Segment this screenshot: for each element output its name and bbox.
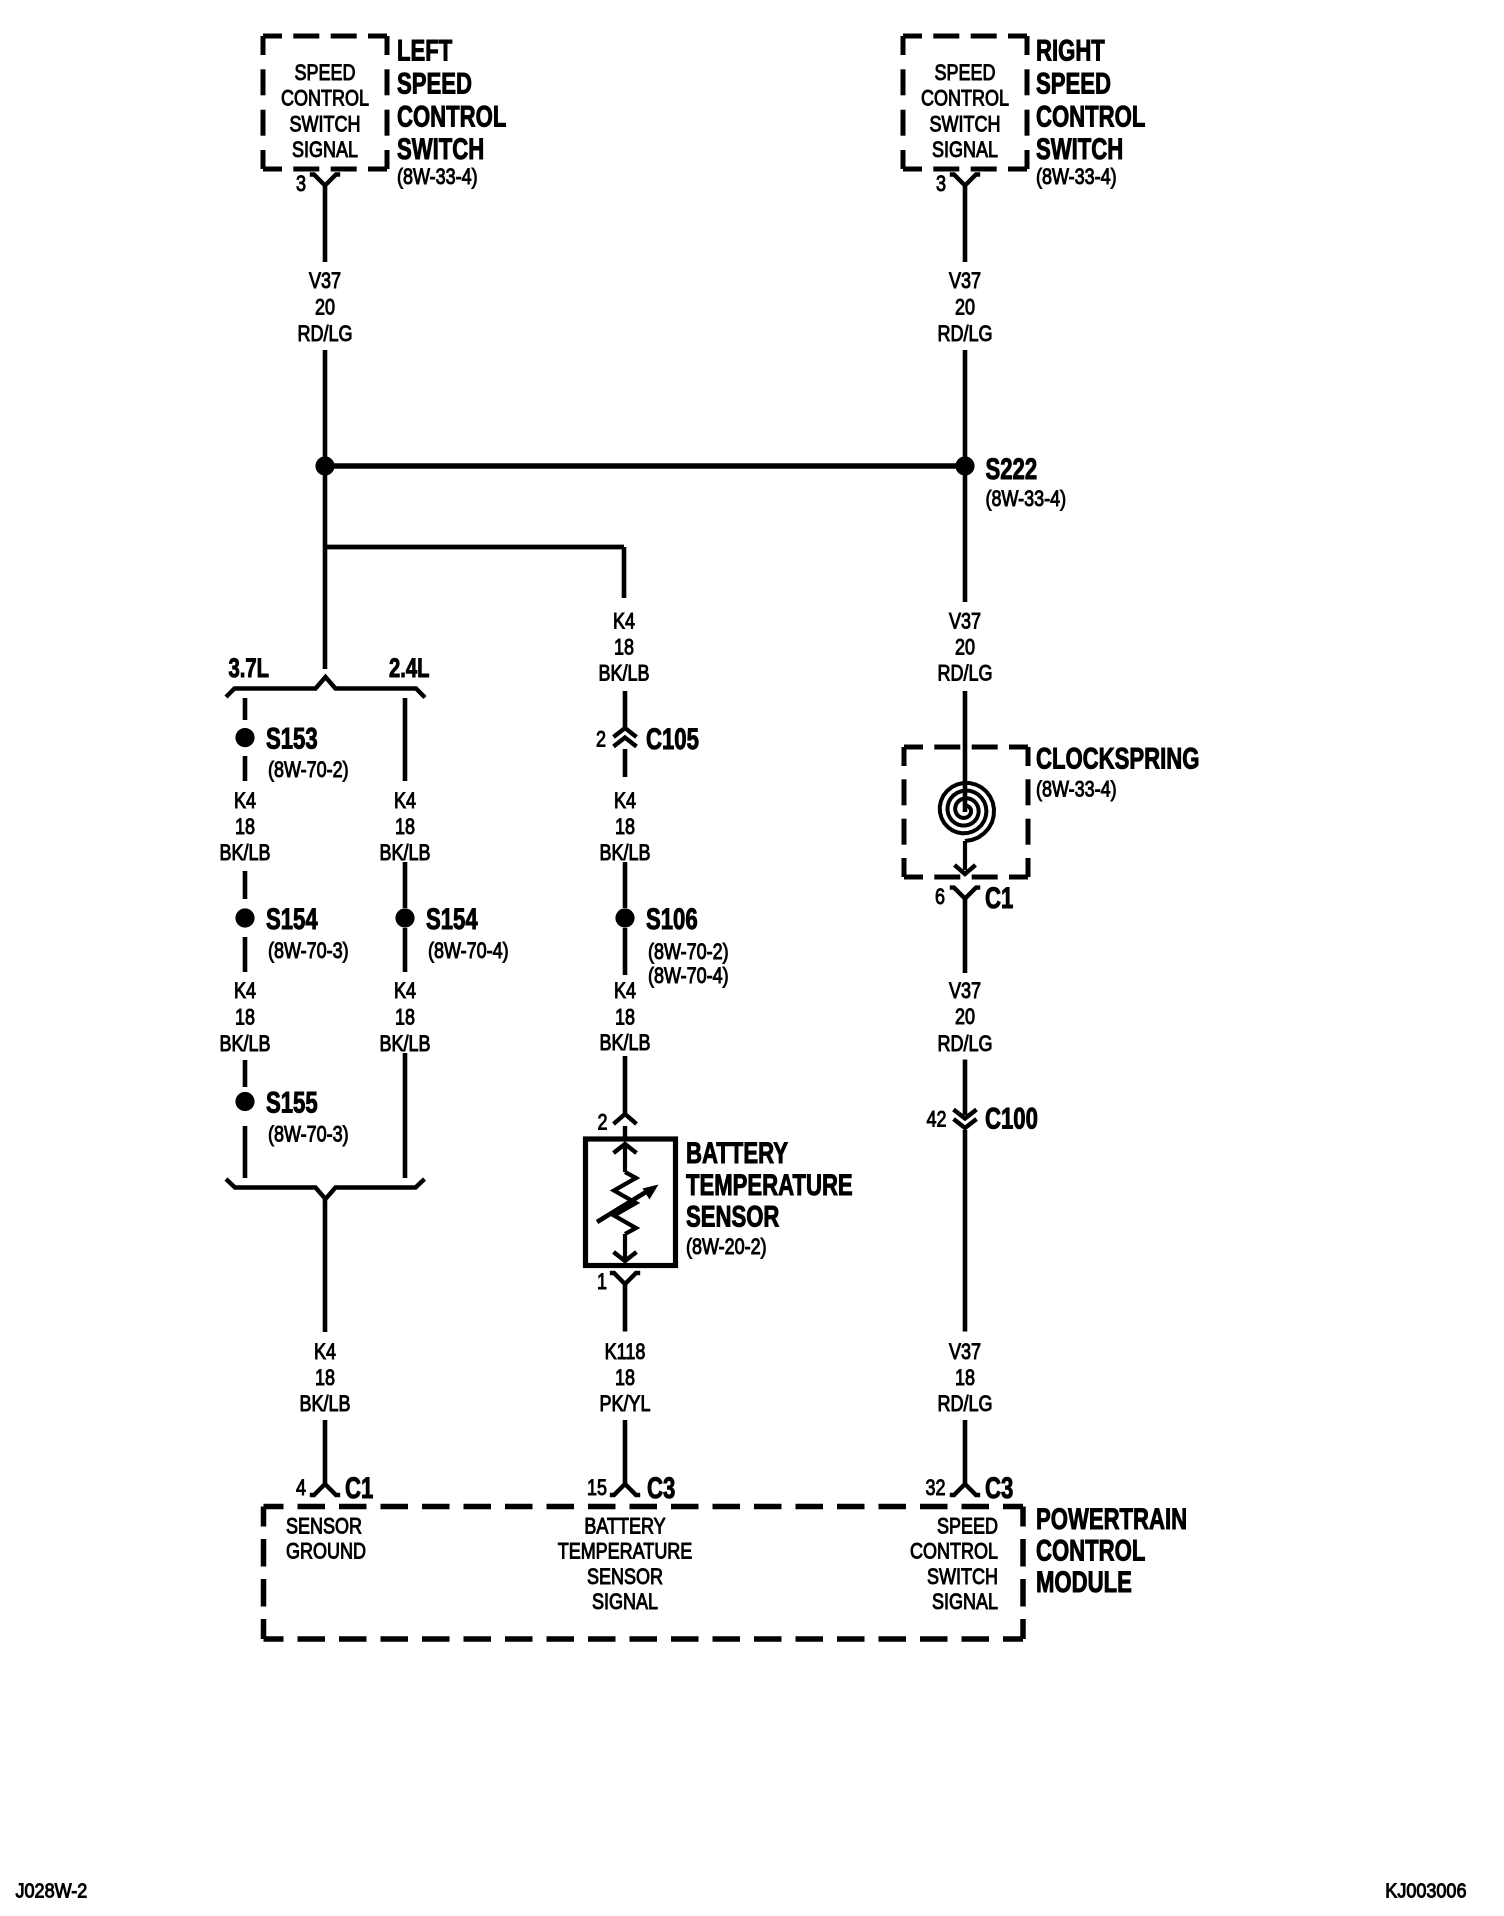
component box: clockspring [904,747,1028,877]
svg-text:(8W-70-3): (8W-70-3) [268,1123,349,1147]
connector fork at left switch pin 3 [310,175,340,186]
arrow out of clockspring [955,841,976,874]
svg-text:C1: C1 [985,881,1013,915]
label: LEFT SPEED CONTROL SWITCH (8W-33-4) [397,33,506,190]
svg-text:V37: V37 [949,979,981,1003]
svg-text:C3: C3 [647,1471,675,1505]
wire label V37 18 RD/LG (to PCM) [938,1340,993,1416]
svg-text:BATTERY: BATTERY [686,1136,788,1170]
connector fork PCM pin 15 [610,1484,640,1495]
svg-text:V37: V37 [949,269,981,293]
wire: into clockspring [963,691,968,812]
connector C100 symbol [954,1110,977,1129]
wire: S154 right down [403,928,408,972]
svg-text:SPEED: SPEED [935,61,996,85]
footer code KJ003006 [1385,1881,1466,1903]
wire: 2.4L branch down [403,698,408,781]
svg-text:RD/LG: RD/LG [938,322,993,346]
component box: right speed control switch [903,36,1027,169]
svg-text:2.4L: 2.4L [389,653,430,684]
label C105 [646,722,699,756]
svg-text:4: 4 [296,1476,306,1500]
engine merge brace [226,1179,425,1199]
svg-text:SWITCH: SWITCH [1036,132,1123,166]
svg-text:K4: K4 [613,610,635,634]
svg-text:V37: V37 [949,1340,981,1364]
svg-text:KJ003006: KJ003006 [1385,1881,1466,1903]
svg-text:(8W-33-4): (8W-33-4) [986,487,1067,511]
svg-text:SENSOR: SENSOR [587,1565,663,1589]
pin 15 label [587,1476,607,1500]
wire dash: 3.7L branch to S153 [243,698,248,720]
svg-text:S106: S106 [646,902,698,936]
svg-text:6: 6 [935,885,945,909]
svg-text:(8W-33-4): (8W-33-4) [1036,778,1117,802]
svg-text:3: 3 [296,172,306,196]
wire label K4 18 BK/LB (2.4L upper) [380,789,431,865]
svg-text:BK/LB: BK/LB [220,841,271,865]
wire label K4 18 BK/LB (above battery temp sensor) [600,979,651,1055]
svg-text:V37: V37 [309,269,341,293]
pin 4 label [296,1476,306,1500]
svg-text:(8W-33-4): (8W-33-4) [397,165,478,189]
wire: branch elbow horizontal [325,545,624,550]
wire: right V37 down through splice [963,350,968,602]
svg-text:CONTROL: CONTROL [921,87,1009,111]
wire: into PCM pin 32 [963,1420,968,1484]
component box: powertrain control module [264,1507,1024,1640]
svg-text:SWITCH: SWITCH [927,1565,998,1589]
wire: 2.4L to merge brace [403,1053,408,1178]
svg-text:(8W-70-2): (8W-70-2) [648,940,729,964]
svg-text:S154: S154 [266,902,318,936]
splice S153 dot [235,728,254,747]
label: BATTERY TEMPERATURE SENSOR SIGNAL [558,1515,693,1614]
svg-text:(8W-70-4): (8W-70-4) [428,939,509,963]
svg-text:SPEED: SPEED [937,1515,998,1539]
svg-text:3.7L: 3.7L [229,653,270,684]
svg-text:K4: K4 [394,979,416,1003]
wire: to S106 [623,862,628,908]
wire dash: to S154 left [243,871,248,899]
splice S222 junction dot [955,456,974,475]
footer diagram number J028W-2 [16,1881,88,1903]
svg-text:K118: K118 [605,1340,646,1364]
svg-text:SIGNAL: SIGNAL [932,1590,998,1614]
wire: right switch pin 3 down [963,186,968,263]
label: SPEED CONTROL SWITCH SIGNAL [910,1515,998,1614]
wire label K4 18 BK/LB (3.7L upper) [220,789,271,865]
label C3 at PCM pin 32 [985,1471,1013,1505]
label S154 (8W-70-4) [426,902,509,964]
svg-text:CLOCKSPRING: CLOCKSPRING [1036,741,1199,775]
svg-text:(8W-20-2): (8W-20-2) [686,1235,767,1259]
splice S106 dot [615,908,634,927]
svg-text:RIGHT: RIGHT [1036,33,1105,67]
label: RIGHT SPEED CONTROL SWITCH (8W-33-4) [1036,33,1145,190]
svg-text:(8W-70-2): (8W-70-2) [268,758,349,782]
connector arrow into sensor [614,1114,637,1137]
wire: stem to engine split brace [323,547,328,669]
splice S154 left dot [235,908,254,927]
label S154 (8W-70-3) [266,902,349,964]
svg-text:BK/LB: BK/LB [599,662,650,686]
label 3.7L [229,653,270,684]
svg-text:SIGNAL: SIGNAL [932,138,998,162]
svg-text:C105: C105 [646,722,699,756]
svg-text:SENSOR: SENSOR [686,1199,780,1233]
label C1 at PCM pin 4 [345,1471,373,1505]
svg-text:S154: S154 [426,902,478,936]
svg-text:K4: K4 [614,979,636,1003]
component box: left speed control switch [263,36,387,169]
svg-text:CONTROL: CONTROL [281,87,369,111]
svg-text:S153: S153 [266,721,318,755]
svg-text:GROUND: GROUND [286,1540,366,1564]
wire label K4 18 BK/LB (2.4L lower) [380,979,431,1056]
wire: to C105 [623,691,628,728]
thermistor element (variable resistor) [614,1144,636,1261]
wire label V37 20 RD/LG (left) [298,269,353,346]
svg-text:18: 18 [615,1366,635,1390]
svg-text:S222: S222 [986,452,1038,486]
wire dash: S153 down [243,756,248,781]
sensor internal arrow bottom [614,1252,637,1261]
svg-text:PK/YL: PK/YL [600,1392,651,1416]
label: BATTERY TEMPERATURE SENSOR (8W-20-2) [686,1136,853,1260]
label: SENSOR GROUND [286,1515,366,1564]
svg-text:K4: K4 [234,979,256,1003]
wire: to S154 right [403,862,408,908]
svg-text:CONTROL: CONTROL [1036,99,1145,133]
svg-text:3: 3 [936,172,946,196]
svg-text:20: 20 [315,296,335,320]
thermistor diagonal arrow [597,1185,659,1223]
wire: sensor pin 1 down [623,1284,628,1332]
engine split brace [226,677,425,698]
svg-text:1: 1 [597,1270,607,1294]
label C100 [985,1101,1038,1135]
wire label K4 18 BK/LB (above C105) [599,610,650,686]
wire: C100 down to PCM [963,1130,968,1332]
svg-text:18: 18 [955,1366,975,1390]
pin 6 clockspring C1 [935,885,945,909]
wire dash: S155 to merge brace [243,1126,248,1178]
svg-text:RD/LG: RD/LG [938,1392,993,1416]
wire: splice bus S222 horizontal [325,463,965,468]
svg-text:18: 18 [615,815,635,839]
wire: C105 down [623,749,628,777]
svg-text:MODULE: MODULE [1036,1565,1132,1599]
svg-text:K4: K4 [614,789,636,813]
svg-text:TEMPERATURE: TEMPERATURE [558,1540,693,1564]
svg-text:(8W-70-4): (8W-70-4) [648,964,729,988]
pin 2 battery temperature sensor [597,1111,607,1135]
wire label K4 18 BK/LB (3.7L lower) [220,979,271,1056]
label C3 at PCM pin 15 [647,1471,675,1505]
label 2.4L [389,653,430,684]
wire dash: S154 left down [243,937,248,972]
svg-text:LEFT: LEFT [397,33,452,67]
component box: battery temperature sensor [586,1139,676,1266]
label S222 (8W-33-4) [986,452,1067,512]
wire: to battery temperature sensor [623,1056,628,1113]
svg-text:18: 18 [235,815,255,839]
wire: into PCM pin 4 [323,1420,328,1484]
wire: S106 down [623,928,628,975]
label S106 (8W-70-2) (8W-70-4) [646,902,729,989]
wire: merge stem down [323,1199,328,1332]
pin 2 at C105 [596,728,606,752]
wire: clockspring C1 down [963,899,968,973]
wire label K118 18 PK/YL [600,1340,651,1416]
svg-text:S155: S155 [266,1085,318,1119]
pin 1 battery temperature sensor [597,1270,607,1294]
svg-text:CONTROL: CONTROL [1036,1533,1145,1567]
svg-text:C1: C1 [345,1471,373,1505]
connector C105 symbol [614,728,637,747]
connector fork PCM pin 4 [310,1484,340,1495]
svg-text:SWITCH: SWITCH [290,113,361,137]
svg-text:20: 20 [955,296,975,320]
pin 3 of left switch [296,172,306,196]
wire: left V37 to splice S222 line [323,350,328,547]
wire dash: to S155 [243,1060,248,1087]
label S153 (8W-70-2) [266,721,349,782]
svg-text:RD/LG: RD/LG [298,322,353,346]
svg-text:CONTROL: CONTROL [910,1540,998,1564]
wire label V37 20 RD/LG (right) [938,269,993,346]
svg-text:V37: V37 [949,610,981,634]
wire: to connector C100 [963,1060,968,1116]
wire: elbow down to K4 label (middle column) [622,547,627,598]
svg-text:RD/LG: RD/LG [938,1032,993,1056]
svg-text:SWITCH: SWITCH [397,132,484,166]
svg-text:(8W-33-4): (8W-33-4) [1036,165,1117,189]
svg-text:20: 20 [955,1005,975,1029]
svg-text:K4: K4 [394,789,416,813]
svg-text:20: 20 [955,636,975,660]
splice S155 dot [235,1092,254,1111]
connector fork sensor pin 1 [610,1273,640,1284]
svg-text:SIGNAL: SIGNAL [592,1590,658,1614]
wire: left switch pin 3 down [323,186,328,263]
svg-text:K4: K4 [314,1340,336,1364]
svg-text:18: 18 [615,1006,635,1030]
svg-text:42: 42 [926,1108,946,1132]
svg-text:BATTERY: BATTERY [584,1515,666,1539]
svg-text:RD/LG: RD/LG [938,662,993,686]
svg-text:2: 2 [596,728,606,752]
connector fork at right switch pin 3 [950,175,980,186]
svg-text:SIGNAL: SIGNAL [292,138,358,162]
clockspring spiral coil [940,783,994,841]
wire label V37 20 RD/LG (below clockspring) [938,979,993,1057]
svg-text:18: 18 [235,1006,255,1030]
svg-text:15: 15 [587,1476,607,1500]
svg-text:18: 18 [395,815,415,839]
svg-text:18: 18 [395,1006,415,1030]
svg-text:C3: C3 [985,1471,1013,1505]
label: CLOCKSPRING (8W-33-4) [1036,741,1199,802]
svg-text:C100: C100 [985,1101,1038,1135]
splice S154 right dot [395,908,414,927]
label: POWERTRAIN CONTROL MODULE [1036,1502,1187,1599]
label S155 (8W-70-3) [266,1085,349,1147]
svg-text:TEMPERATURE: TEMPERATURE [686,1168,853,1202]
svg-text:BK/LB: BK/LB [300,1392,351,1416]
svg-text:SPEED: SPEED [295,61,356,85]
svg-text:SENSOR: SENSOR [286,1515,362,1539]
svg-text:32: 32 [925,1476,945,1500]
svg-text:BK/LB: BK/LB [220,1032,271,1056]
pin 32 label [925,1476,945,1500]
svg-text:(8W-70-3): (8W-70-3) [268,939,349,963]
svg-text:SWITCH: SWITCH [930,113,1001,137]
svg-text:18: 18 [315,1366,335,1390]
svg-text:CONTROL: CONTROL [397,99,506,133]
svg-text:J028W-2: J028W-2 [16,1881,88,1903]
svg-text:POWERTRAIN: POWERTRAIN [1036,1502,1187,1536]
svg-text:SPEED: SPEED [1036,66,1111,100]
pin 3 of right switch [936,172,946,196]
junction dot left on S222 bus [315,456,334,475]
svg-text:18: 18 [614,636,634,660]
wire label K4 18 BK/LB (above S106) [600,789,651,865]
connector fork PCM pin 32 [950,1484,980,1495]
wire label V37 20 RD/LG (to clockspring) [938,610,993,686]
svg-text:2: 2 [597,1111,607,1135]
wire: into PCM pin 15 [623,1420,628,1484]
svg-text:BK/LB: BK/LB [600,1031,651,1055]
connector fork clockspring pin 6 [950,888,980,899]
pin 42 at C100 [926,1108,946,1132]
label C1 at clockspring [985,881,1013,915]
svg-text:K4: K4 [234,789,256,813]
wire label K4 18 BK/LB (to PCM) [300,1340,351,1416]
svg-text:SPEED: SPEED [397,66,472,100]
sensor internal arrow top [614,1144,637,1153]
